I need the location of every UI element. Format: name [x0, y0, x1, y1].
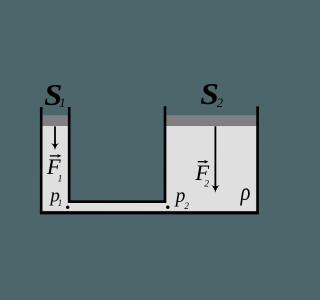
label p1 [48, 185, 62, 207]
wall left tube outer [40, 107, 43, 213]
wall right vessel outer [256, 106, 259, 213]
svg-text:2: 2 [184, 201, 189, 211]
svg-text:1: 1 [58, 174, 63, 184]
force arrow F2 [211, 126, 219, 192]
liquid (U-shaped fluid fill) [42, 126, 256, 211]
svg-text:1: 1 [59, 96, 65, 110]
force arrow F1 [51, 126, 59, 150]
piston P1 (left, gray) [43, 115, 68, 126]
piston P2 (right, gray) [166, 115, 256, 126]
svg-text:2: 2 [204, 180, 209, 190]
wall inner (left tube right side, channel top, right vessel left side) [69, 106, 165, 201]
label S1 [44, 77, 65, 111]
svg-text:2: 2 [217, 96, 223, 110]
label p2 [174, 186, 190, 211]
label F2 (vector accent + F + subscript 2) [194, 160, 209, 190]
node p1 dot [66, 206, 69, 209]
svg-text:1: 1 [58, 198, 63, 208]
wall bottom [40, 211, 259, 214]
label F1 (vector accent + F + subscript 1) [46, 154, 62, 184]
label S2 [200, 76, 223, 111]
svg-text:ρ: ρ [240, 178, 251, 205]
node p2 dot [166, 206, 169, 209]
